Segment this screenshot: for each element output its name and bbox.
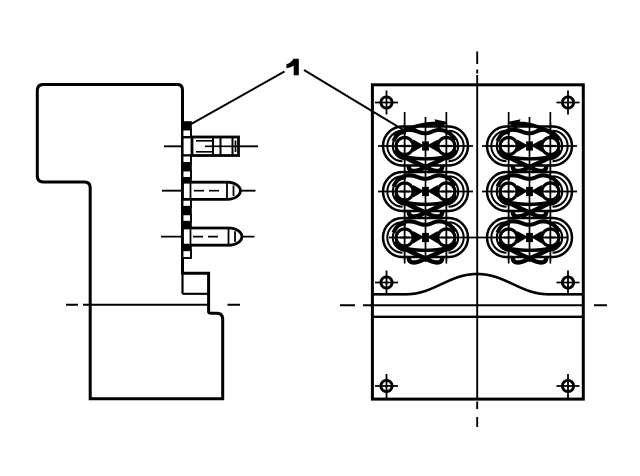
ticks above row1 xyxy=(405,112,551,131)
ticks below row3 xyxy=(405,255,551,264)
serration tab solid 11 xyxy=(183,245,192,250)
label 1 xyxy=(286,59,298,75)
pin 2 centerline xyxy=(162,190,256,192)
horizontal centerline xyxy=(340,304,607,306)
arrow wire row1 left xyxy=(394,123,441,136)
serration tab open 2 xyxy=(183,130,192,138)
column vertical right xyxy=(529,117,531,262)
cluster row2 left xyxy=(383,169,468,217)
leader line to front view xyxy=(304,70,406,132)
screw top-left xyxy=(375,91,398,115)
column vertical left xyxy=(425,117,427,262)
cluster row1 right xyxy=(487,123,572,171)
bump curve xyxy=(372,274,583,294)
serration tab solid 1 xyxy=(183,122,192,130)
pin 1 body xyxy=(192,137,239,156)
serration tab solid 4 xyxy=(183,163,192,171)
serration tab open 9 xyxy=(183,214,192,222)
screw bottom-left xyxy=(375,374,398,398)
left view horizontal centerline xyxy=(66,304,240,306)
serration tab open 7 xyxy=(183,199,192,207)
screw top-right xyxy=(557,91,580,115)
left view body outline xyxy=(37,85,222,399)
row 2 crosshair lines xyxy=(378,191,577,193)
cluster row1 left xyxy=(383,123,468,171)
row 3 crosshair line xyxy=(389,237,568,239)
pin 3 body xyxy=(183,228,242,245)
pin 1 root xyxy=(183,137,193,155)
serration tab solid 8 xyxy=(183,207,192,215)
cluster row2 right xyxy=(487,169,572,217)
lower edge line xyxy=(372,316,583,318)
cluster row3 right xyxy=(487,215,572,263)
screw bottom-right xyxy=(557,374,580,398)
leader line to side view xyxy=(189,72,285,126)
step box internal edges xyxy=(183,273,209,294)
row 1 crosshair lines xyxy=(378,145,577,147)
pin 2 body xyxy=(183,182,241,199)
pin 1 centerline xyxy=(164,145,258,147)
plate outline xyxy=(372,85,583,399)
pin 3 dashes xyxy=(193,236,218,238)
arrow wire row1 right xyxy=(514,123,557,137)
serration tab open 12 xyxy=(183,250,192,258)
pin 3 centerline xyxy=(161,236,255,238)
screw mid-right xyxy=(557,271,580,295)
pin 2 dashes xyxy=(194,190,219,192)
screw mid-left xyxy=(375,271,398,295)
serration tab solid 6 xyxy=(183,178,192,183)
serration tab open 3 xyxy=(183,156,192,164)
serration tab open 5 xyxy=(183,171,192,179)
cluster row3 left xyxy=(383,215,468,263)
serration tab solid 10 xyxy=(183,222,192,229)
vertical centerline xyxy=(476,52,478,428)
